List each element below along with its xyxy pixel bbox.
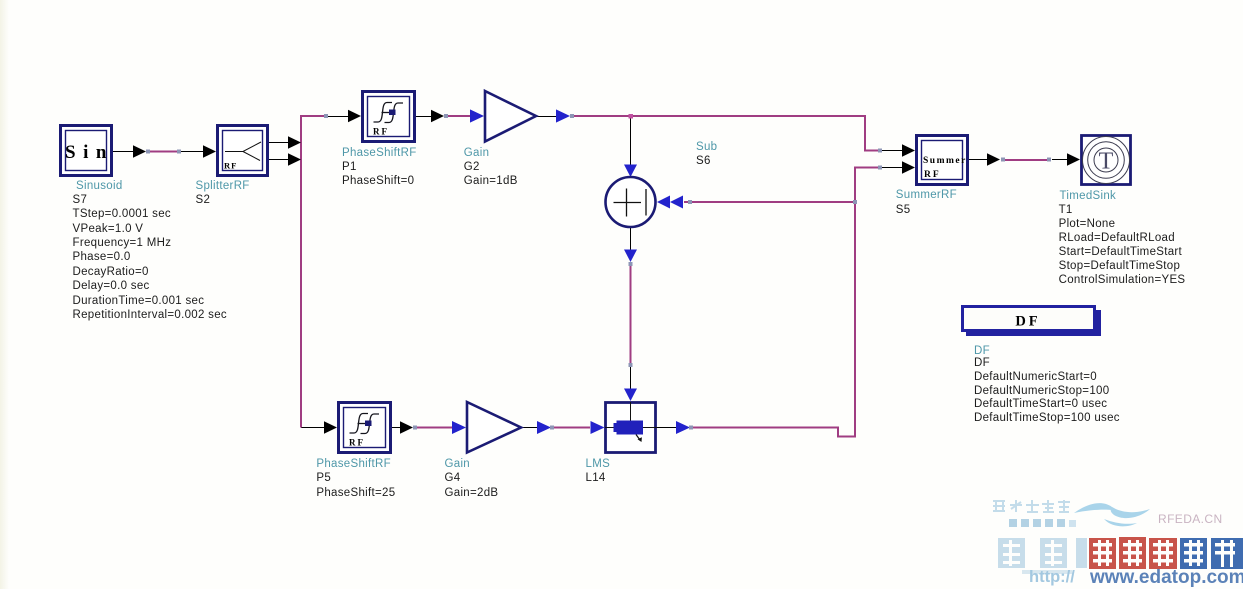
svg-text:DF: DF xyxy=(1015,314,1040,330)
svg-text:Summer: Summer xyxy=(923,156,967,166)
svg-text:Sin: Sin xyxy=(65,142,114,163)
svg-text:RF: RF xyxy=(924,170,941,180)
svg-text:RF: RF xyxy=(373,127,389,137)
svg-text:RFEDA.CN: RFEDA.CN xyxy=(1158,512,1223,526)
svg-text:RF: RF xyxy=(224,161,237,171)
svg-text:T: T xyxy=(1099,149,1114,175)
svg-text:RF: RF xyxy=(349,438,365,448)
svg-text:www.edatop.com: www.edatop.com xyxy=(1089,567,1243,588)
svg-text:http://: http:// xyxy=(1029,568,1075,586)
